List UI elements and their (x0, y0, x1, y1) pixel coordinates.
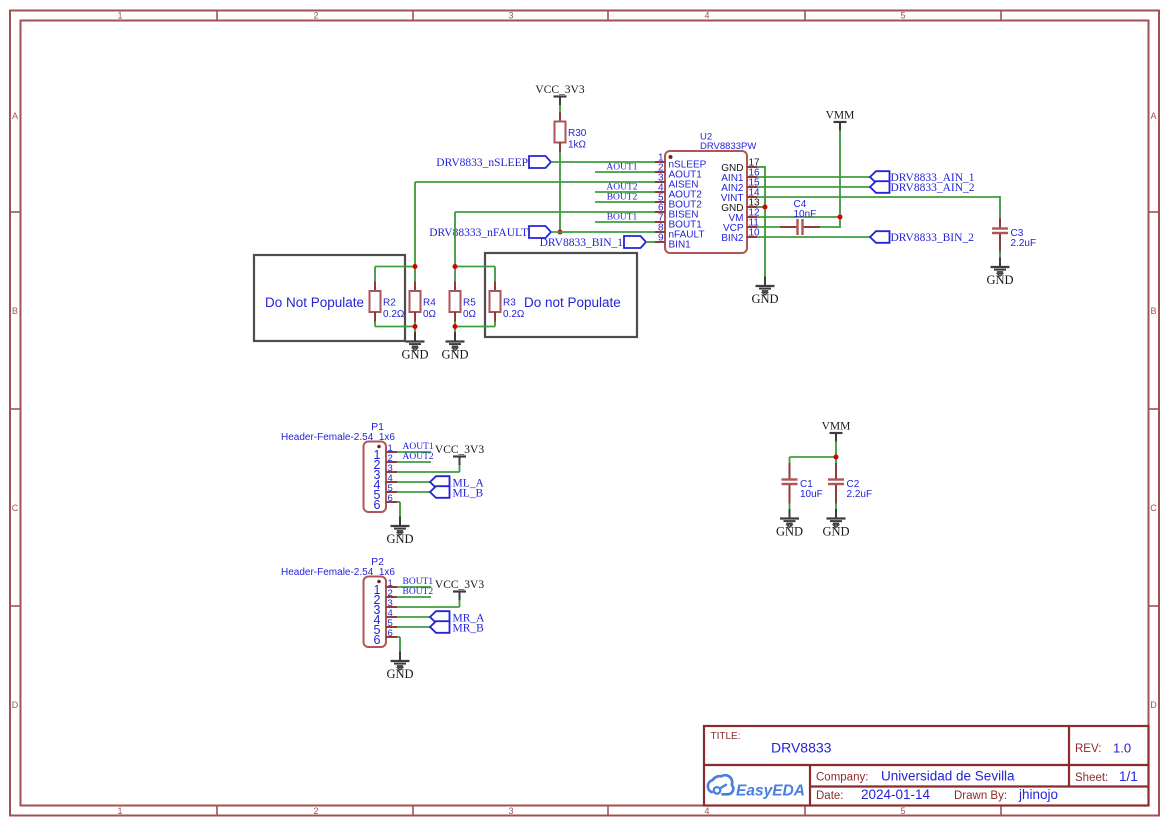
wire U2 pin 11 VCP to C4 (757, 226, 780, 228)
wire R30 to nFAULT net (559, 152, 561, 232)
wire P2 pin 2 (397, 596, 431, 598)
svg-text:B: B (1150, 306, 1156, 316)
svg-text:GND: GND (822, 524, 849, 538)
net flag DRV88333_nFAULT (429, 226, 551, 239)
wire C4 to VMM line (820, 226, 841, 228)
svg-text:AOUT1: AOUT1 (606, 163, 637, 173)
capacitor C4 10nF (VCP-VM) (780, 199, 820, 235)
wire C3 to GND (999, 252, 1001, 258)
op-amp/IC U2 DRV8833PW body (665, 132, 756, 254)
net flag MR_B (430, 621, 484, 634)
svg-text:6: 6 (388, 628, 393, 639)
resistor R30 1kΩ (pullup) (555, 112, 587, 152)
title block Sheet field (1075, 769, 1138, 784)
net flag DRV8833_AIN_2 (870, 181, 975, 194)
wire P1 pin 2 (397, 461, 431, 463)
svg-text:DRV8833_nSLEEP: DRV8833_nSLEEP (436, 157, 528, 169)
power flag VMM (bulk caps) (822, 421, 851, 442)
svg-text:4: 4 (704, 806, 709, 816)
label Do not Populate (right) (524, 295, 621, 310)
wire P2 pin 5 to MR_B (397, 626, 430, 628)
wire C2 to GND (835, 504, 837, 510)
svg-text:1.0: 1.0 (1113, 741, 1131, 756)
wire BISEN net: U2 pin 6 to resistor network (455, 211, 655, 213)
wire AISEN net: U2 pin 3 to resistor network (415, 181, 655, 183)
wire BISEN parallel group bottom (455, 326, 495, 328)
wire BIN_1 flag to U2 pin 9 (646, 241, 655, 243)
wire C1 to GND (789, 504, 791, 510)
svg-text:TITLE:: TITLE: (711, 731, 741, 742)
wire VMM down to VM pin 12 (839, 131, 841, 228)
svg-text:D: D (1150, 700, 1157, 710)
svg-text:REV:: REV: (1075, 743, 1101, 755)
svg-text:VMM: VMM (822, 421, 851, 433)
ground B sense (441, 332, 468, 361)
svg-text:Sheet:: Sheet: (1075, 772, 1108, 784)
wire U2 pin 16 to AIN_1 flag (757, 176, 870, 178)
junction GND net pin13 (763, 205, 768, 210)
net label AOUT1 (606, 163, 637, 173)
net label BOUT2 (607, 193, 638, 203)
svg-text:2.2uF: 2.2uF (847, 489, 873, 500)
do-not-populate box left (254, 255, 405, 341)
wire P2 pin 4 to MR_A (397, 616, 430, 618)
power flag VMM (U2 supply) (826, 110, 855, 131)
border row labels right (1150, 111, 1157, 710)
wire R4 bottom to GND (414, 322, 416, 333)
wire P1 pin 1 (397, 451, 431, 453)
ground under C3 (986, 258, 1013, 287)
junction on nFAULT at R30 (558, 230, 563, 235)
svg-text:2: 2 (313, 806, 318, 816)
net label AOUT2 (P1 pin 2) (403, 452, 434, 462)
svg-text:R3: R3 (503, 298, 516, 309)
net flag ML_B (430, 486, 484, 499)
net flag DRV8833_BIN_1 (540, 236, 646, 249)
net label AOUT1 (P1 pin 1) (403, 442, 434, 452)
wire P1 pin 6 to GND (397, 501, 400, 503)
svg-text:AOUT2: AOUT2 (606, 183, 637, 193)
title block REV field (1075, 741, 1131, 756)
net label AOUT2 (606, 183, 637, 193)
svg-text:AOUT1: AOUT1 (403, 442, 434, 452)
border row ticks left (10, 212, 21, 606)
svg-text:GND: GND (986, 273, 1013, 287)
wire U2 pin 14 VINT to C3 (757, 196, 1000, 198)
ground under C1 (776, 509, 803, 538)
title block TITLE field (711, 731, 832, 756)
net flag DRV8833_BIN_2 (870, 231, 974, 244)
svg-text:DRV8833PW: DRV8833PW (700, 141, 756, 152)
wire U2 pin 10 to BIN_2 flag (757, 236, 870, 238)
U2 right pins 10-17 (721, 158, 760, 245)
svg-text:GND: GND (776, 524, 803, 538)
resistor R3 0.2Ω (B sense) (490, 282, 525, 322)
svg-text:BOUT2: BOUT2 (403, 587, 434, 597)
net label BOUT2 (P2 pin 2) (403, 587, 434, 597)
svg-text:B: B (12, 306, 18, 316)
svg-text:BOUT1: BOUT1 (607, 213, 638, 223)
svg-text:2024-01-14: 2024-01-14 (861, 787, 931, 802)
svg-text:0Ω: 0Ω (463, 309, 477, 320)
wire AISEN parallel group bottom (375, 326, 415, 328)
wire U2 pin 13 GND (757, 206, 765, 208)
svg-text:DRV88333_nFAULT: DRV88333_nFAULT (429, 227, 528, 239)
svg-text:1/1: 1/1 (1119, 769, 1138, 784)
capacitor C1 10uF (bulk) (782, 463, 823, 504)
svg-text:VCC_3V3: VCC_3V3 (435, 444, 484, 456)
svg-text:BIN2: BIN2 (721, 233, 744, 244)
svg-text:Do not Populate: Do not Populate (524, 295, 621, 310)
svg-text:3: 3 (508, 11, 513, 21)
wire U2 pin 15 to AIN_2 flag (757, 186, 870, 188)
svg-text:GND: GND (401, 347, 428, 361)
capacitor C3 2.2uF (VINT bypass) (992, 218, 1036, 252)
wire nFAULT flag to U2 pin 8 (551, 231, 655, 233)
svg-text:6: 6 (388, 493, 393, 504)
svg-text:4: 4 (704, 11, 709, 21)
svg-text:BIN1: BIN1 (669, 240, 692, 251)
svg-text:GND: GND (386, 667, 413, 681)
svg-text:R5: R5 (463, 298, 476, 309)
svg-text:DRV8833_AIN_2: DRV8833_AIN_2 (891, 182, 975, 194)
svg-text:C: C (1150, 503, 1157, 513)
junction BISEN bottom (453, 324, 458, 329)
svg-text:EasyEDA: EasyEDA (736, 783, 805, 800)
border row labels left (12, 111, 19, 710)
svg-text:10uF: 10uF (800, 489, 823, 500)
resistor R4 0Ω (A sense short) (410, 282, 437, 322)
wire P1 pin 4 to ML_A (397, 481, 430, 483)
svg-text:R2: R2 (383, 298, 396, 309)
resistor R5 0Ω (B sense short) (450, 282, 477, 322)
svg-text:2.2uF: 2.2uF (1011, 238, 1037, 249)
junction AISEN top (413, 264, 418, 269)
svg-text:GND: GND (441, 347, 468, 361)
label Do Not Populate (left) (265, 295, 364, 310)
junction BISEN top (453, 264, 458, 269)
power flag VCC_3V3 (P1) (435, 444, 484, 465)
junction VMM caps (834, 455, 839, 460)
border column ticks bottom (217, 806, 1001, 816)
border column labels bottom (117, 806, 905, 816)
connector P1 Header-Female-2.54_1x6 (left motor) (281, 421, 397, 512)
wire VCC_3V3 to R30 (559, 105, 561, 112)
svg-text:6: 6 (374, 633, 381, 647)
EasyEDA logo (708, 775, 805, 799)
svg-text:jhinojo: jhinojo (1018, 787, 1058, 802)
svg-text:9: 9 (658, 233, 664, 244)
svg-text:MR_B: MR_B (453, 623, 485, 635)
wire P2 pin 1 (397, 586, 431, 588)
net flag ML_A (430, 476, 485, 489)
net flag MR_A (430, 611, 485, 624)
title block Date field (816, 787, 931, 802)
net label BOUT1 (P2 pin 1) (403, 577, 434, 587)
junction AISEN bottom (413, 324, 418, 329)
resistor R2 0.2Ω (A sense) (370, 282, 405, 322)
svg-text:0.2Ω: 0.2Ω (383, 309, 405, 320)
net flag DRV8833_AIN_1 (870, 171, 975, 184)
U2 left pins 1-9 (655, 153, 707, 251)
svg-text:5: 5 (900, 11, 905, 21)
svg-text:Drawn By:: Drawn By: (954, 790, 1007, 802)
net label BOUT1 (607, 213, 638, 223)
svg-text:6: 6 (374, 498, 381, 512)
wire P2 pin 3 to VCC_3V3 (397, 606, 460, 608)
net flag DRV8833_nSLEEP (436, 156, 551, 169)
wire BISEN parallel group top (455, 266, 495, 268)
svg-text:Company:: Company: (816, 772, 868, 784)
svg-text:VMM: VMM (826, 110, 855, 122)
ground P1 (386, 517, 413, 546)
svg-text:GND: GND (751, 292, 778, 306)
wire U2 pin 17 GND down (757, 166, 765, 168)
wire BOUT1 to U2 (595, 221, 655, 223)
svg-text:10nF: 10nF (794, 209, 817, 220)
power flag VCC_3V3 (P2) (435, 579, 484, 600)
do-not-populate box right (485, 253, 637, 337)
svg-text:3: 3 (508, 806, 513, 816)
svg-text:A: A (1150, 111, 1156, 121)
svg-text:AOUT2: AOUT2 (403, 452, 434, 462)
wire AISEN parallel group top (375, 266, 415, 268)
wire BOUT2 to U2 (595, 201, 655, 203)
title block Company field (816, 769, 1015, 784)
svg-text:R4: R4 (423, 298, 436, 309)
svg-text:0Ω: 0Ω (423, 309, 437, 320)
svg-text:0.2Ω: 0.2Ω (503, 309, 525, 320)
svg-text:VCC_3V3: VCC_3V3 (435, 579, 484, 591)
junction VM/VMM (838, 215, 843, 220)
svg-text:DRV8833: DRV8833 (771, 740, 832, 756)
wire P2 pin 6 to GND (397, 636, 400, 638)
border column labels top (117, 11, 905, 21)
wire P1 pin 3 to VCC_3V3 (397, 471, 460, 473)
title block frame (704, 726, 1149, 806)
capacitor C2 2.2uF (bulk) (828, 463, 872, 504)
svg-text:1kΩ: 1kΩ (568, 140, 587, 151)
svg-text:1: 1 (117, 11, 122, 21)
svg-text:BOUT1: BOUT1 (403, 577, 434, 587)
ground P2 (386, 652, 413, 681)
ground under U2 (751, 277, 778, 306)
power flag VCC_3V3 (top pullup) (535, 84, 584, 105)
svg-text:Do Not Populate: Do Not Populate (265, 295, 364, 310)
border column ticks top (217, 11, 1001, 21)
svg-text:5: 5 (900, 806, 905, 816)
border row ticks right (1149, 212, 1160, 606)
svg-text:Universidad de Sevilla: Universidad de Sevilla (881, 769, 1015, 784)
svg-text:2: 2 (313, 11, 318, 21)
svg-text:ML_B: ML_B (453, 488, 484, 500)
wire AOUT2 to U2 (595, 191, 655, 193)
svg-text:Date:: Date: (816, 790, 844, 802)
svg-text:GND: GND (386, 532, 413, 546)
wire P1 pin 5 to ML_B (397, 491, 430, 493)
wire nSLEEP flag to U2 pin 1 (551, 161, 655, 163)
wire R5 bottom to GND (454, 322, 456, 333)
svg-text:1: 1 (117, 806, 122, 816)
svg-text:DRV8833_BIN_1: DRV8833_BIN_1 (540, 237, 624, 249)
svg-text:R30: R30 (568, 128, 587, 139)
ground under C2 (822, 509, 849, 538)
wire U2 pin 12 VM (757, 216, 840, 218)
ground A sense (401, 332, 428, 361)
wire VMM to C1/C2 (835, 442, 837, 464)
svg-text:BOUT2: BOUT2 (607, 193, 638, 203)
svg-text:C: C (12, 503, 19, 513)
svg-text:DRV8833_BIN_2: DRV8833_BIN_2 (891, 232, 975, 244)
svg-text:VCC_3V3: VCC_3V3 (535, 84, 584, 96)
svg-text:D: D (12, 700, 19, 710)
connector P2 Header-Female-2.54_1x6 (right motor) (281, 556, 397, 647)
svg-text:A: A (12, 111, 18, 121)
title block Drawn By field (954, 787, 1058, 802)
wire AOUT1 to U2 (595, 171, 655, 173)
